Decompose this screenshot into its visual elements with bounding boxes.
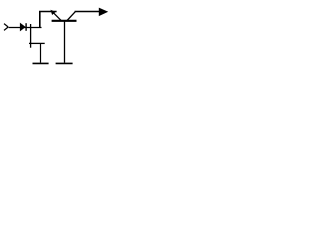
input terminal [4, 24, 8, 31]
diode D1 anode triangle [20, 23, 25, 31]
output arrow [99, 8, 108, 17]
top rail wire [39, 11, 57, 13]
wire input to diode to junction [9, 27, 42, 29]
transistor Q1 emitter with arrow [51, 10, 62, 21]
wire jog horizontal [29, 42, 45, 44]
wire riser up [39, 11, 41, 28]
diode D1 cathode bar [25, 23, 27, 31]
base lead down [64, 22, 66, 63]
output wire [75, 11, 100, 13]
left ground bar [33, 62, 49, 64]
wire to left ground [40, 43, 42, 63]
transistor Q1 base bar [52, 20, 77, 22]
right ground bar [56, 62, 73, 64]
node junction wire down [30, 24, 32, 48]
transistor Q1 collector [67, 12, 76, 21]
